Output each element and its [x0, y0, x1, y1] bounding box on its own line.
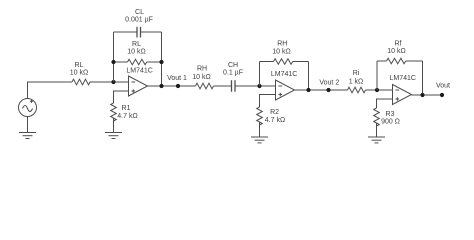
wire CH to op-amp2 [235, 85, 276, 87]
wire RL to inverting node [90, 81, 129, 83]
wire op-amp3 output [412, 94, 443, 96]
wire feedback right vertical (output up to CL) [161, 32, 163, 86]
svg-text:LM741C: LM741C [390, 75, 416, 82]
wire feedback2 right vertical [308, 62, 310, 91]
junction dot (output2 to feedback) [306, 88, 310, 92]
svg-text:RH: RH [277, 41, 287, 48]
wire R1 to ground [113, 118, 115, 133]
junction dot (output to feedback) [159, 84, 163, 88]
svg-text:1 kΩ: 1 kΩ [349, 79, 364, 86]
op-amp U3 LM741C [393, 85, 412, 105]
resistor RH (feedback) [260, 59, 309, 65]
node B (op-amp2 inverting input) [257, 84, 261, 88]
node Vout 1 [176, 84, 180, 88]
svg-text:10 kΩ: 10 kΩ [127, 49, 145, 56]
svg-text:900 Ω: 900 Ω [381, 119, 400, 126]
svg-text:Vout 1: Vout 1 [167, 75, 187, 82]
wire non-inverting input3 to R3 [377, 99, 393, 108]
resistor Rf (feedback) [377, 58, 423, 64]
svg-text:10 kΩ: 10 kΩ [272, 49, 290, 56]
wire R2 to ground [259, 122, 261, 137]
ground (source) [19, 133, 36, 139]
ground (R2) [251, 137, 268, 143]
resistor RL (series input) [72, 79, 90, 85]
voltage source V1 [19, 99, 37, 117]
svg-text:Ri: Ri [353, 70, 360, 77]
svg-text:RL: RL [75, 62, 84, 69]
node C (op-amp3 inverting input) [375, 88, 379, 92]
svg-text:LM741C: LM741C [126, 68, 152, 75]
op-amp U2 LM741C [276, 80, 295, 100]
svg-text:R1: R1 [122, 105, 131, 112]
svg-text:10 kΩ: 10 kΩ [192, 74, 210, 81]
svg-text:Vout 2: Vout 2 [319, 80, 339, 87]
resistor RH (series) [196, 83, 214, 89]
svg-text:LM741C: LM741C [271, 71, 297, 78]
wire RH to CH [214, 85, 232, 87]
node Vout [440, 93, 444, 97]
svg-text:CL: CL [135, 9, 144, 16]
wire non-inverting input to R1 [114, 91, 129, 103]
svg-text:R3: R3 [386, 111, 395, 118]
wire op-amp1 output [148, 85, 196, 87]
svg-text:0.1 µF: 0.1 µF [223, 70, 243, 77]
wire feedback left vertical (node A up to CL) [113, 32, 115, 82]
op-amp U1 LM741C [129, 76, 148, 96]
svg-text:R2: R2 [270, 109, 279, 116]
junction dot (output3 to feedback) [420, 93, 424, 97]
resistor Ri [348, 87, 366, 93]
wire non-inverting input2 to R2 [260, 95, 276, 108]
resistor R2 [257, 107, 263, 125]
junction dot (feedback right) [159, 60, 163, 64]
wire op-amp2 output [295, 89, 348, 91]
capacitor CL [114, 27, 162, 38]
svg-text:10 kΩ: 10 kΩ [70, 70, 88, 77]
wire feedback3 right vertical [422, 61, 424, 95]
node Vout 2 [326, 88, 330, 92]
node A (op-amp1 inverting input) [111, 80, 115, 84]
wire source top to RL [28, 82, 73, 99]
svg-text:CH: CH [228, 62, 238, 69]
ground (R1) [105, 133, 122, 139]
capacitor CH [232, 80, 236, 92]
resistor RL (feedback) [114, 59, 162, 65]
svg-text:RH: RH [197, 65, 207, 72]
wire Ri to op-amp3 [366, 89, 393, 91]
svg-text:0.001 µF: 0.001 µF [125, 17, 153, 24]
resistor R3 [374, 108, 380, 126]
wire feedback3 left vertical [376, 61, 378, 90]
svg-text:Vout: Vout [436, 82, 450, 89]
wire feedback2 left vertical [259, 62, 261, 87]
resistor R1 [111, 103, 117, 121]
ground (R3) [368, 137, 385, 143]
wire source bottom to ground [27, 117, 29, 133]
svg-text:RL: RL [132, 41, 141, 48]
svg-text:4.7 kΩ: 4.7 kΩ [265, 117, 285, 124]
svg-text:4.7 kΩ: 4.7 kΩ [117, 113, 137, 120]
wire R3 to ground [376, 123, 378, 137]
svg-text:Rf: Rf [395, 40, 402, 47]
junction dot (feedback left) [111, 60, 115, 64]
svg-text:10 kΩ: 10 kΩ [387, 48, 405, 55]
